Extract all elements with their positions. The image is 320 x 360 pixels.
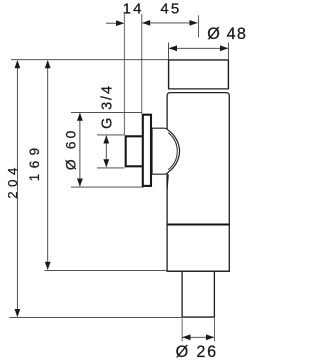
169 bottom ext line (45, 269, 168, 271)
45 dimension line (142, 22, 198, 24)
body edge transition below nut (167, 174, 168, 190)
cap bottom edge (168, 88, 229, 90)
body bottom edge (167, 270, 230, 272)
svg-text:45: 45 (160, 1, 181, 18)
204 bottom ext line (9, 316, 182, 318)
centre ext line (198, 15, 200, 37)
inlet pipe G3/4 (thick) (126, 136, 144, 166)
body outline (167, 93, 229, 272)
flange (thick) (143, 115, 151, 186)
nut (white filled, covers body left edge) (152, 128, 180, 174)
outlet pipe bottom edge (182, 316, 216, 318)
Ø48 dimension (168, 43, 170, 60)
svg-text:169: 169 (27, 142, 42, 181)
Ø60 extension lines (under flange) (71, 111, 142, 113)
svg-text:204: 204 (5, 163, 20, 199)
204 dimension line (16, 61, 18, 316)
svg-text:Ø 48: Ø 48 (207, 25, 247, 43)
svg-text:14: 14 (123, 1, 144, 18)
svg-text:G 3/4: G 3/4 (100, 84, 116, 129)
14 leader + arrow (106, 22, 117, 24)
G3/4 dimension (97, 134, 125, 136)
svg-text:Ø 60: Ø 60 (63, 127, 78, 170)
ext line from flange face (141, 14, 143, 114)
cap outline (169, 60, 229, 89)
nut chamfer inner arc (168, 133, 177, 170)
outlet pipe (182, 272, 214, 317)
Ø60 dimension (79, 113, 81, 186)
body seam line (167, 224, 229, 226)
svg-text:Ø 26: Ø 26 (176, 343, 218, 360)
Ø26 dimension (181, 319, 183, 342)
ext line from pipe end (123, 14, 125, 135)
top extension line (11, 59, 168, 61)
169 dimension line (47, 61, 49, 269)
